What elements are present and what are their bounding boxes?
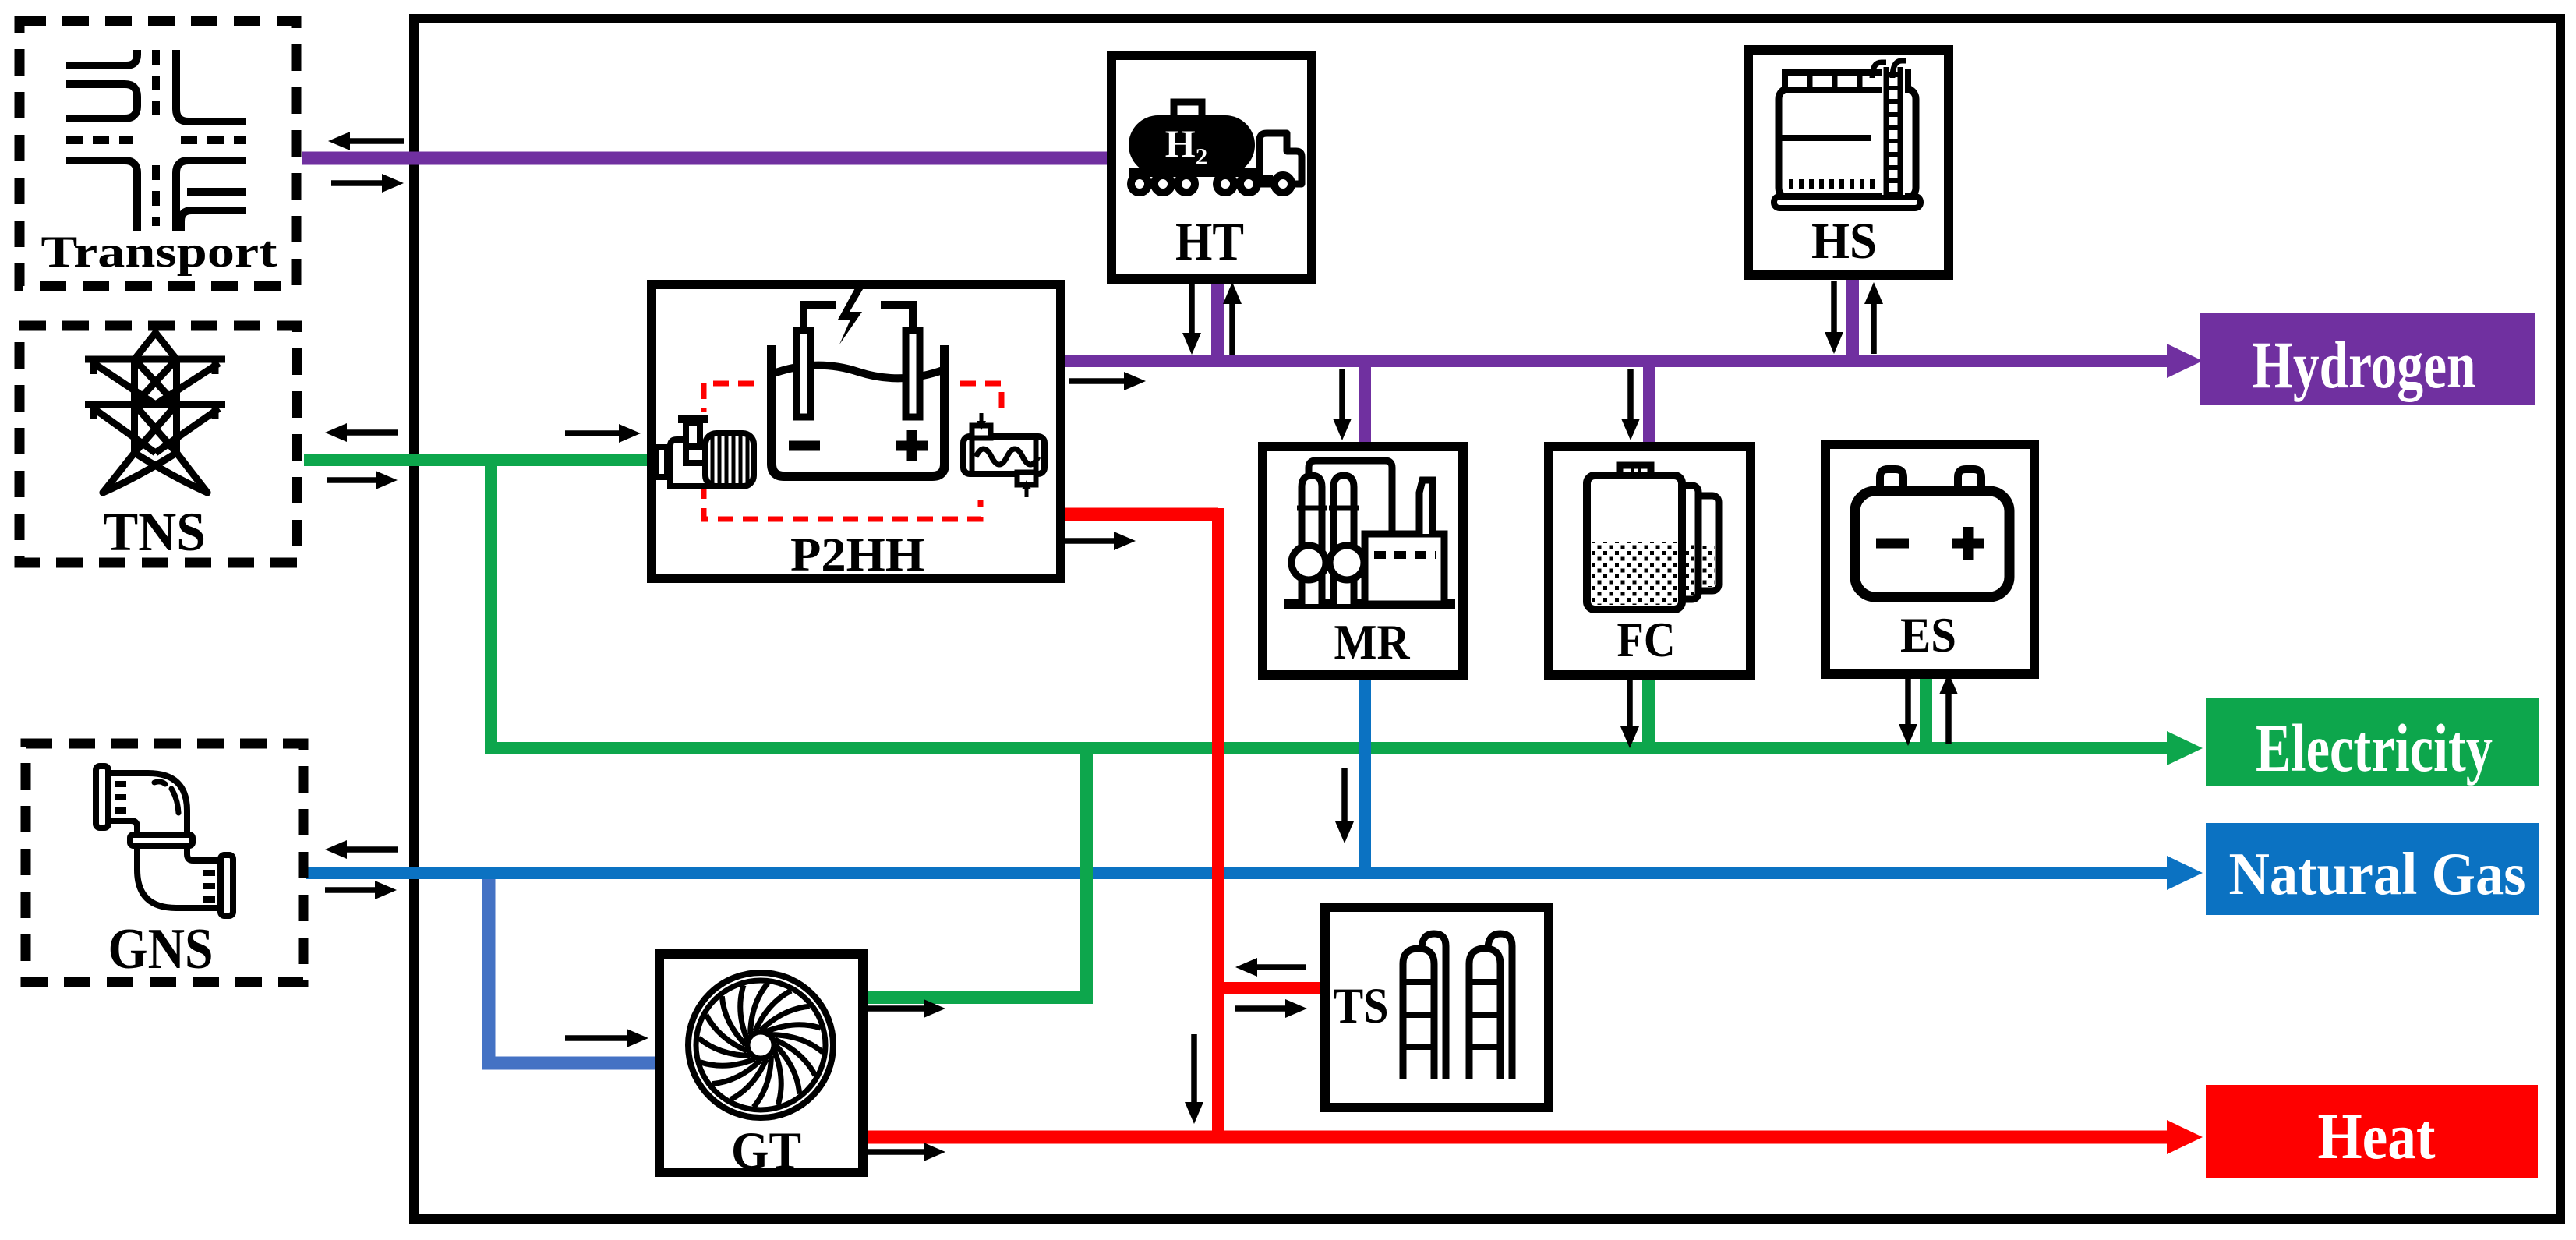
svg-text:GNS: GNS [108,917,214,981]
svg-text:Hydrogen: Hydrogen [2253,327,2476,402]
svg-text:HT: HT [1175,212,1244,272]
svg-text:P2HH: P2HH [790,529,924,581]
svg-text:Natural Gas: Natural Gas [2229,840,2526,907]
svg-text:Electricity: Electricity [2256,710,2493,786]
svg-text:Transport: Transport [41,228,277,277]
svg-text:FC: FC [1617,612,1676,667]
svg-text:Heat: Heat [2318,1100,2436,1173]
svg-text:GT: GT [731,1121,801,1180]
svg-text:TNS: TNS [103,502,206,563]
svg-text:MR: MR [1334,614,1411,669]
svg-text:ES: ES [1900,608,1956,662]
svg-text:HS: HS [1811,213,1877,270]
svg-text:TS: TS [1334,978,1389,1034]
